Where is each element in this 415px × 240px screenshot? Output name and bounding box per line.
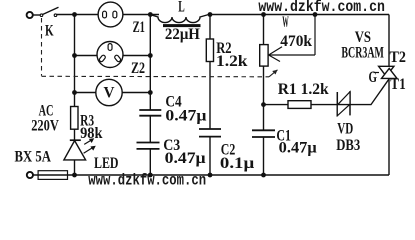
node bottom at LED rail	[72, 173, 77, 178]
potentiometer W	[260, 15, 268, 131]
capacitor C1	[252, 130, 275, 175]
wire middle rail (C4/C3 branch)	[149, 15, 151, 111]
svg-text:BCR3AM: BCR3AM	[341, 45, 384, 62]
wire top rail inductor to right corner	[209, 14, 389, 16]
wire switch to node A	[57, 14, 98, 16]
svg-text:L: L	[178, 0, 185, 15]
svg-text:LED: LED	[94, 155, 119, 172]
switch K	[40, 7, 58, 16]
svg-text:BX 5A: BX 5A	[15, 148, 52, 165]
svg-text:Z1: Z1	[133, 19, 145, 36]
wire top rail Z1 right to inductor	[123, 14, 159, 16]
wire voltmeter left lead	[75, 92, 97, 94]
svg-text:T2: T2	[390, 49, 407, 66]
node bottom at C3	[148, 173, 153, 178]
node top rail at W	[261, 12, 266, 17]
wire gate (diac to triac gate)	[350, 79, 389, 105]
resistor R1	[264, 101, 338, 109]
wire Z2 left lead	[75, 55, 98, 57]
LED	[64, 138, 96, 175]
node Z2 right	[148, 53, 153, 58]
svg-text:0.47μ: 0.47μ	[165, 107, 206, 124]
resistor R2	[206, 15, 213, 129]
svg-text:W: W	[282, 14, 289, 31]
node bottom at C1	[261, 173, 266, 178]
svg-text:VS: VS	[355, 29, 371, 46]
svg-text:www.dzkfw.com.cn: www.dzkfw.com.cn	[258, 0, 385, 16]
wire bottom rail	[33, 174, 389, 176]
node Z2 left	[72, 53, 77, 58]
svg-text:DB3: DB3	[336, 137, 360, 154]
svg-text:G: G	[369, 69, 378, 86]
svg-text:T1: T1	[390, 76, 406, 93]
wiper arrow of W	[269, 15, 315, 62]
inductor L	[150, 15, 208, 28]
label AC 220V	[31, 102, 59, 134]
svg-text:0.1μ: 0.1μ	[220, 155, 254, 172]
wire right rail	[388, 15, 390, 176]
svg-text:Z2: Z2	[131, 60, 145, 77]
fuse BX	[38, 171, 67, 180]
wire left rail	[74, 15, 76, 107]
svg-text:R1 1.2k: R1 1.2k	[278, 81, 329, 98]
svg-text:K: K	[45, 22, 54, 39]
svg-text:0.47μ: 0.47μ	[279, 140, 317, 157]
resistor R3	[71, 107, 78, 141]
wire terminal to switch	[33, 14, 40, 16]
node voltmeter left	[72, 90, 77, 95]
wire Z2 right lead	[123, 55, 151, 57]
svg-text:V: V	[104, 85, 115, 102]
svg-text:0.47μ: 0.47μ	[165, 150, 206, 167]
node R1 at W rail	[261, 102, 266, 107]
terminal bottom AC input	[27, 172, 33, 178]
terminal top AC input	[27, 12, 33, 18]
wire voltmeter right lead	[122, 92, 150, 94]
node top rail at R2	[208, 12, 213, 17]
node voltmeter right	[148, 90, 153, 95]
svg-text:220V: 220V	[31, 118, 59, 135]
socket Z2	[97, 42, 123, 68]
mechanical link dashed (K to W)	[42, 18, 278, 77]
capacitor C3	[137, 143, 160, 176]
node top rail at wiper tie	[313, 12, 318, 17]
capacitor C2	[199, 129, 221, 175]
svg-text:1.2k: 1.2k	[216, 53, 248, 70]
svg-text:www.dzkfw.com.cn: www.dzkfw.com.cn	[88, 172, 206, 188]
node top-left junction	[72, 12, 77, 17]
svg-text:470k: 470k	[280, 33, 312, 50]
triac VS	[374, 66, 398, 78]
diac VD	[337, 91, 350, 116]
svg-text:22μH: 22μH	[165, 26, 201, 43]
capacitor C4	[139, 110, 161, 143]
svg-text:VD: VD	[337, 121, 353, 138]
node bottom at C2	[208, 173, 213, 178]
node top rail at C4 branch	[148, 12, 153, 17]
voltmeter V	[96, 79, 122, 105]
socket Z1	[98, 2, 123, 27]
